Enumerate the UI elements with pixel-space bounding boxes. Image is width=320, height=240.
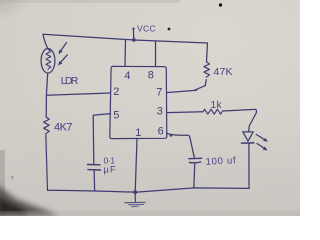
svg-text:LDR: LDR bbox=[61, 75, 79, 87]
svg-text:7: 7 bbox=[156, 87, 162, 99]
svg-text:VCC: VCC bbox=[137, 23, 156, 33]
svg-text:4: 4 bbox=[124, 70, 130, 82]
svg-text:8: 8 bbox=[148, 70, 154, 82]
svg-text:5: 5 bbox=[113, 109, 119, 121]
svg-text:47K: 47K bbox=[214, 66, 233, 78]
svg-text:4K7: 4K7 bbox=[54, 121, 73, 133]
svg-text:3: 3 bbox=[157, 105, 163, 117]
svg-text:2: 2 bbox=[113, 86, 119, 98]
svg-text:100 uf: 100 uf bbox=[205, 155, 236, 168]
svg-text:µF: µF bbox=[104, 164, 117, 174]
svg-text:1k: 1k bbox=[211, 100, 223, 111]
svg-text:1: 1 bbox=[135, 127, 141, 139]
svg-text:6: 6 bbox=[158, 125, 164, 137]
